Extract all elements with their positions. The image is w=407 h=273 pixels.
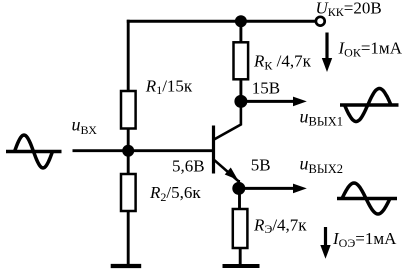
ground right — [223, 264, 260, 268]
wire emitter short vertical — [238, 180, 241, 189]
wire left vertical from rail to R1 — [127, 20, 130, 92]
sine input — [6, 135, 62, 168]
node base junction — [122, 145, 134, 157]
arrow IОК — [322, 33, 332, 73]
terminal UКК — [316, 17, 325, 26]
resistor RК — [234, 42, 249, 79]
svg-text:R1/15к: R1/15к — [145, 76, 193, 97]
transistor VT base bar — [212, 126, 215, 174]
resistor R1 — [121, 91, 136, 129]
arrow uВЫХ1 — [245, 97, 307, 107]
wire R1 bottom to base node — [127, 129, 130, 152]
sine output1 — [340, 89, 399, 122]
ground left — [111, 264, 142, 268]
svg-text:5В: 5В — [251, 155, 271, 174]
arrow uВЫХ2 — [243, 184, 307, 194]
resistor R2 — [121, 174, 136, 211]
sine output2 — [337, 183, 397, 214]
svg-text:UКК=20В: UКК=20В — [316, 0, 382, 19]
wire R2 to ground — [127, 211, 130, 266]
transistor emitter lead — [214, 160, 239, 182]
wire RЭ to ground — [239, 248, 242, 266]
wire base node to R2 — [127, 151, 130, 175]
node emitter junction — [232, 182, 245, 195]
svg-text:15В: 15В — [252, 78, 280, 97]
wire base horizontal — [73, 149, 213, 152]
node collector junction — [234, 95, 247, 108]
transistor emitter arrowhead — [225, 168, 241, 184]
wire top rail — [127, 20, 316, 23]
svg-text:5,6В: 5,6В — [172, 156, 205, 175]
svg-text:RК /4,7к: RК /4,7к — [253, 52, 312, 73]
wire emitter node to RЭ — [238, 188, 241, 210]
resistor RЭ — [233, 209, 248, 248]
transistor collector lead — [214, 101, 241, 140]
node rail junction — [235, 15, 247, 27]
svg-text:R2/5,6к: R2/5,6к — [149, 183, 201, 204]
svg-text:RЭ/4,7к: RЭ/4,7к — [253, 215, 307, 236]
wire rail to RК — [239, 21, 242, 43]
wire RК to collector node — [239, 79, 242, 102]
arrow IОЭ — [320, 227, 330, 259]
